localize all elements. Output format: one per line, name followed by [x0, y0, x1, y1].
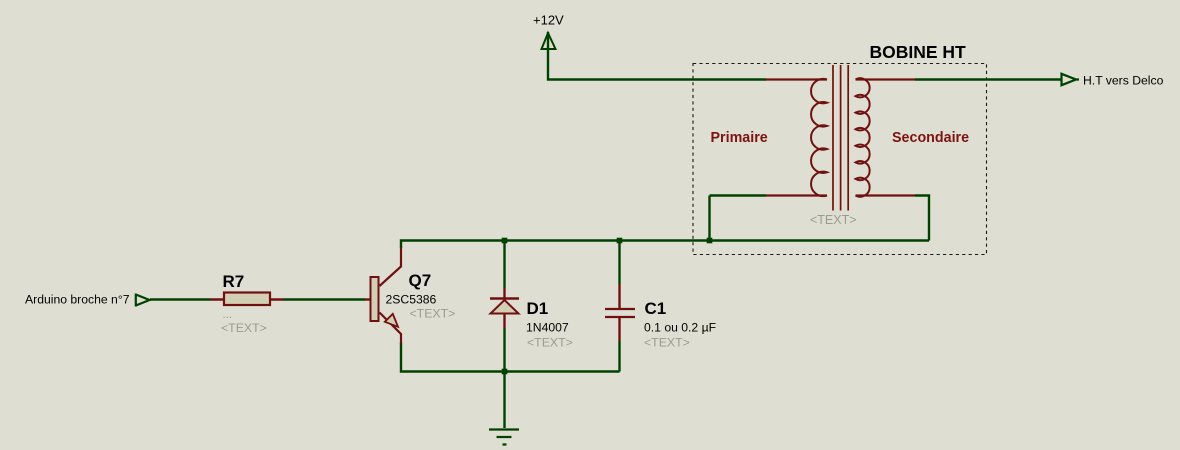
svg-text:2SC5386: 2SC5386	[386, 293, 437, 307]
svg-text:D1: D1	[527, 299, 549, 318]
svg-text:+12V: +12V	[533, 13, 564, 28]
svg-text:Q7: Q7	[409, 271, 432, 290]
svg-text:Arduino broche n°7: Arduino broche n°7	[25, 293, 130, 307]
svg-text:<TEXT>: <TEXT>	[410, 307, 456, 321]
svg-text:H.T vers Delco: H.T vers Delco	[1083, 74, 1164, 88]
svg-text:<TEXT>: <TEXT>	[644, 336, 690, 350]
svg-text:<TEXT>: <TEXT>	[810, 213, 857, 227]
svg-text:1N4007: 1N4007	[526, 321, 569, 335]
svg-text:0.1 ou 0.2 µF: 0.1 ou 0.2 µF	[644, 321, 716, 335]
svg-text:<TEXT>: <TEXT>	[221, 321, 267, 335]
svg-text:Primaire: Primaire	[711, 130, 768, 146]
svg-text:R7: R7	[223, 272, 245, 291]
svg-text:Secondaire: Secondaire	[892, 130, 969, 146]
svg-text:C1: C1	[645, 299, 667, 318]
svg-text:...: ...	[223, 309, 233, 321]
svg-text:BOBINE HT: BOBINE HT	[870, 42, 967, 62]
svg-text:<TEXT>: <TEXT>	[527, 336, 573, 350]
